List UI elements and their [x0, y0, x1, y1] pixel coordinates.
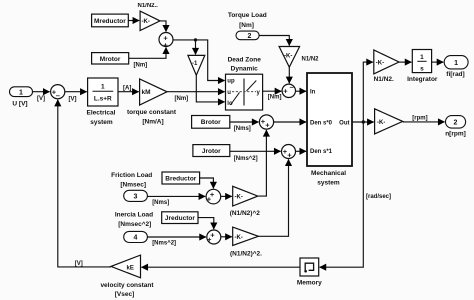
gain -K- N1/N2. (fi path) — [374, 50, 399, 83]
gain kM torque constant — [127, 79, 177, 125]
svg-text:Breductor: Breductor — [165, 175, 197, 182]
svg-text:+: + — [283, 87, 288, 96]
wire inport3 to sum S6 — [147, 195, 205, 197]
svg-text:Integrator: Integrator — [407, 76, 438, 83]
svg-text:+: + — [207, 195, 212, 204]
svg-text:[Nms]: [Nms] — [152, 200, 169, 206]
svg-text:[Vsec]: [Vsec] — [115, 291, 135, 298]
svg-text:N1/N2..: N1/N2.. — [138, 3, 159, 9]
svg-text:U [V]: U [V] — [12, 101, 27, 108]
inport 3 Friction Load — [111, 172, 169, 206]
gain kE velocity constant — [100, 255, 154, 298]
inport 4 Inercia Load — [115, 212, 176, 247]
svg-text:Dynamic: Dynamic — [231, 66, 258, 73]
dead zone dynamic block — [226, 57, 263, 110]
junction dot — [194, 38, 197, 41]
inport 1 U[V] — [10, 87, 33, 108]
svg-text:-K-: -K- — [142, 19, 150, 25]
sum S2 — [159, 33, 173, 50]
svg-text:s: s — [420, 65, 424, 72]
wire S1 to electrical system — [65, 91, 87, 93]
svg-text:–: – — [290, 83, 294, 92]
feedback wire kE to sum S1 bottom — [58, 100, 111, 267]
svg-text:L.s+R: L.s+R — [94, 95, 112, 102]
wire gain to sum S3in top — [288, 67, 290, 83]
svg-text:Mechanical: Mechanical — [311, 170, 346, 177]
svg-text:1: 1 — [101, 84, 105, 91]
svg-text:Torque Load: Torque Load — [228, 12, 267, 19]
svg-text:system: system — [90, 119, 113, 126]
svg-text:Den s*0: Den s*0 — [310, 120, 333, 126]
sum S6 — [206, 189, 221, 204]
wire gain fi to integrator — [399, 61, 411, 63]
wire Brotor to sum S4 — [230, 121, 259, 123]
subsystem Mechanical system — [307, 73, 352, 187]
svg-text:kE: kE — [127, 265, 134, 271]
inport 2 Torque Load — [228, 12, 267, 40]
svg-text:up: up — [227, 79, 235, 85]
svg-text:[Nmsec]: [Nmsec] — [120, 182, 146, 189]
wire Mreductor to gain — [128, 20, 139, 22]
wire gain to sum S2 top — [160, 21, 166, 32]
svg-text:4: 4 — [134, 235, 138, 242]
svg-text:In: In — [310, 90, 316, 96]
svg-text:Brotor: Brotor — [201, 119, 221, 126]
svg-text:[Nms^2]: [Nms^2] — [234, 156, 258, 162]
wire junction to gain -1 — [195, 40, 197, 55]
constant Mrotor — [92, 53, 129, 64]
svg-text:n[rpm]: n[rpm] — [445, 131, 466, 138]
svg-text:[V]: [V] — [69, 97, 77, 103]
constant Mreductor — [92, 14, 129, 27]
svg-text:[Nm/A]: [Nm/A] — [142, 118, 163, 125]
integrator 1/s — [407, 50, 438, 84]
gain -K- rpm — [375, 109, 403, 134]
wire kM to deadzone u — [167, 91, 225, 93]
outport 2 n[rpm] — [445, 116, 466, 138]
wire Mrotor to sum S2 bottom — [129, 47, 166, 58]
svg-text:N1/N2: N1/N2 — [302, 57, 320, 63]
svg-text:1: 1 — [19, 89, 23, 96]
svg-text:[Nm]: [Nm] — [239, 22, 254, 29]
gain (N1/N2)^2. — [230, 227, 262, 257]
svg-text:(N1/N2)^2: (N1/N2)^2 — [230, 209, 261, 217]
wire S5 to mech Den s*1 — [296, 150, 307, 152]
sum S7 — [207, 230, 221, 244]
gain -K- N1/N2 (torque load) — [279, 47, 319, 68]
wire junction up to gain fi — [363, 62, 373, 122]
svg-text:-K-: -K- — [284, 53, 292, 59]
wire Jreductor to sum S7 top — [198, 218, 214, 230]
sum S4 — [259, 115, 273, 130]
sum S3in — [282, 83, 295, 98]
svg-text:Memory: Memory — [297, 279, 322, 286]
svg-text:u: u — [227, 90, 231, 96]
svg-text:Friction Load: Friction Load — [111, 172, 152, 179]
svg-text:N1/N2.: N1/N2. — [374, 76, 394, 83]
svg-text:+: + — [287, 151, 292, 160]
constant Breductor — [162, 172, 200, 184]
svg-text:[A]: [A] — [123, 86, 131, 92]
svg-text:-K-: -K- — [376, 61, 384, 67]
svg-text:-K-: -K- — [377, 120, 385, 126]
wire mech Out to gain rpm — [352, 121, 374, 123]
wire S4 to mech Den s*0 — [274, 121, 307, 123]
svg-text:1: 1 — [454, 60, 458, 67]
svg-text:+: + — [265, 121, 270, 130]
wire S6 to gain5 — [221, 195, 232, 197]
gain (N1/N2)^2 — [230, 186, 261, 217]
wire memory to gain kE — [141, 266, 300, 268]
svg-text:(N1/N2)^2.: (N1/N2)^2. — [230, 249, 262, 257]
svg-text:kM: kM — [142, 89, 151, 96]
memory block — [297, 258, 322, 286]
svg-text:Out: Out — [339, 120, 349, 126]
svg-text:2: 2 — [248, 33, 252, 40]
svg-text:Inercia Load: Inercia Load — [115, 212, 153, 219]
wire gain5 up to sum S4 bottom — [258, 130, 267, 196]
svg-text:[V]: [V] — [37, 96, 45, 102]
wire S2 to deadzone up — [173, 40, 225, 81]
wire gain rpm to outport2 — [403, 121, 445, 123]
svg-text:[Nms]: [Nms] — [234, 126, 251, 132]
wire gain -1 to deadzone lo — [196, 75, 224, 102]
wire deadzone y to sum S3in — [263, 90, 282, 92]
svg-text:system: system — [317, 180, 340, 187]
svg-text:Jreductor: Jreductor — [165, 215, 195, 222]
wire S7 to gain6 — [221, 236, 232, 238]
wire Breductor to sum S6 top — [200, 178, 214, 188]
svg-text:[Nmsec^2]: [Nmsec^2] — [118, 220, 151, 228]
sum S1 — [51, 85, 65, 100]
wire inport1 to sum S1 — [33, 91, 50, 93]
svg-text:-K-: -K- — [235, 235, 243, 241]
wire integrator to outport1 — [432, 61, 444, 63]
svg-text:torque constant: torque constant — [127, 109, 177, 116]
svg-text:[Nm]: [Nm] — [134, 63, 148, 69]
wire junction down to memory — [320, 122, 364, 267]
constant Brotor — [192, 116, 230, 129]
svg-text:+: + — [207, 235, 212, 244]
svg-text:[Nm]: [Nm] — [268, 95, 282, 101]
svg-text:fi[rad]: fi[rad] — [446, 71, 464, 78]
constant Jrotor — [193, 145, 230, 157]
svg-text:Mreductor: Mreductor — [94, 18, 126, 25]
wire S3in to mech In — [296, 90, 307, 92]
svg-text:–: – — [56, 91, 60, 100]
gain -K- N1/N2 top — [140, 11, 160, 31]
transfer fcn Electrical system — [87, 78, 118, 126]
svg-text:Dead Zone: Dead Zone — [228, 57, 262, 64]
outport 1 fi[rad] — [444, 56, 468, 78]
svg-text:[rpm]: [rpm] — [412, 116, 427, 122]
svg-text:[V]: [V] — [75, 261, 83, 267]
svg-text:2: 2 — [454, 120, 458, 127]
svg-text:3: 3 — [134, 194, 138, 201]
svg-text:[Nm]: [Nm] — [175, 96, 189, 102]
wire gain6 up to sum S5 bottom — [258, 159, 288, 236]
constant Jreductor — [162, 212, 198, 224]
svg-text:[Nms^2]: [Nms^2] — [152, 240, 176, 246]
svg-text:-1: -1 — [192, 61, 198, 67]
gain -1 — [188, 55, 205, 75]
svg-text:-K-: -K- — [235, 195, 243, 201]
wire electrical to kM — [118, 91, 139, 93]
sum S5 — [282, 145, 296, 160]
svg-text:Jrotor: Jrotor — [202, 148, 221, 155]
svg-text:[rad/sec]: [rad/sec] — [366, 194, 391, 200]
wire Jrotor to sum S5 — [230, 150, 281, 152]
svg-text:Mrotor: Mrotor — [100, 56, 121, 63]
svg-text:velocity constant: velocity constant — [100, 282, 154, 289]
svg-text:Electrical: Electrical — [87, 109, 116, 116]
wire inport2 to gain N1/N2 down — [259, 36, 289, 46]
svg-text:Den s*1: Den s*1 — [310, 149, 333, 155]
wire inport4 to sum S7 — [147, 236, 206, 238]
svg-text:+: + — [163, 40, 168, 49]
svg-text:1: 1 — [420, 54, 424, 61]
junction dot — [362, 120, 365, 123]
